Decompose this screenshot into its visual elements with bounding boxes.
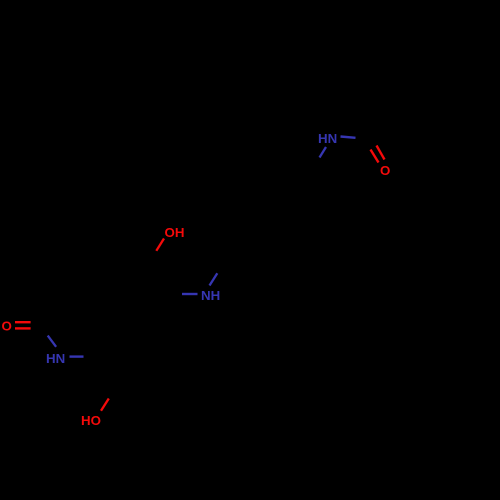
wire: C=O double bond (red half), line 1 — [371, 150, 379, 163]
svg-text:OH: OH — [165, 225, 185, 240]
svg-text:NH: NH — [201, 288, 220, 303]
svg-text:HO: HO — [81, 413, 101, 428]
wire: O=C double bond (red half), lower line — [15, 327, 31, 329]
wire: O=C double bond (red half), upper line — [15, 321, 31, 323]
svg-text:HN: HN — [318, 131, 337, 146]
wire: N to CH (blue half-bond, left) — [182, 293, 198, 295]
svg-text:O: O — [380, 163, 390, 178]
svg-text:O: O — [2, 318, 12, 333]
wire: carbonyl C to N (blue half-bond, diagonal) — [48, 336, 56, 347]
wire: N to carbonyl C (blue half-bond) — [341, 137, 356, 138]
svg-text:HN: HN — [46, 351, 65, 366]
wire: O to CH2 (red half-bond, up-right) — [101, 399, 109, 411]
wire: N to CH2 (blue half-bond, up-right) — [210, 273, 218, 285]
wire: C=O double bond (red half), line 2 — [377, 146, 385, 160]
wire: N to CH (blue half-bond, down-left) — [320, 147, 327, 158]
wire: O to CH2 (red half-bond, down-left) — [156, 239, 164, 251]
wire: N to CH (blue half-bond, right) — [70, 355, 84, 357]
